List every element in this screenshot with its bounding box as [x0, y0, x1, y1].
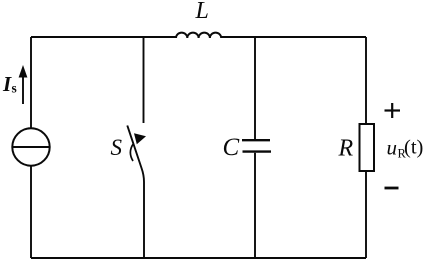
svg-text:I: I: [2, 72, 12, 96]
svg-text:(t): (t): [404, 137, 423, 159]
svg-text:R: R: [338, 136, 354, 162]
svg-text:u: u: [387, 136, 398, 160]
svg-text:L: L: [195, 0, 209, 24]
svg-text:S: S: [111, 135, 123, 160]
svg-text:C: C: [223, 134, 240, 161]
svg-text:s: s: [12, 81, 17, 96]
